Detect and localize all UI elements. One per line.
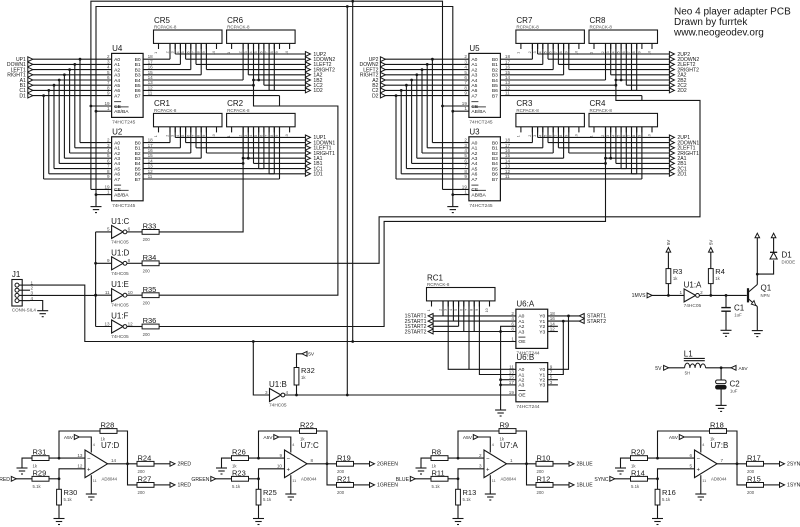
svg-text:AD8044: AD8044 [711, 477, 727, 482]
wire U4 B0 row [143, 58, 170, 60]
wire down to R21 [327, 464, 337, 485]
wire output 2D2 row [632, 89, 670, 91]
wire DOWN1 staircase vertical [74, 64, 76, 147]
wire U1:F output to R36 [127, 326, 142, 328]
wire RC1 pin8 riser to 2START2 row [473, 301, 475, 332]
wire U1:C input [96, 231, 112, 233]
ground R25 [253, 518, 264, 520]
svg-text:B1: B1 [492, 62, 498, 68]
resistor R28 1k [100, 429, 117, 434]
svg-text:A4: A4 [114, 78, 120, 84]
output terminal 2UP1 [669, 135, 674, 140]
wire R3 bottom [667, 284, 669, 296]
svg-text:B3: B3 [135, 73, 141, 79]
svg-text:R29: R29 [33, 468, 47, 477]
resistor pack CR6 RCPACK-8 [227, 30, 296, 43]
wire AB/BA net vertical [452, 111, 454, 206]
wire U7:C output [307, 463, 337, 465]
wire control TR: to R34 [159, 80, 700, 263]
svg-text:7: 7 [627, 135, 631, 137]
wire RC1 pin9 riser to U6:B A1 [479, 301, 516, 375]
svg-text:12: 12 [128, 321, 134, 326]
wire feedback to R28 [59, 431, 100, 458]
wire U4 B2 row [143, 69, 191, 71]
ground R30 [54, 518, 65, 520]
resistor R4 1k [708, 269, 713, 284]
wire input D1 row [32, 95, 111, 97]
svg-text:5: 5 [107, 227, 110, 232]
wire 5V to L1 [668, 367, 684, 369]
svg-text:3: 3 [171, 51, 175, 53]
svg-text:10: 10 [277, 464, 283, 469]
svg-text:5V: 5V [308, 352, 315, 358]
svg-text:CR4: CR4 [590, 99, 607, 108]
svg-text:OE: OE [518, 393, 526, 399]
svg-text:R33: R33 [143, 222, 157, 231]
svg-text:B2: B2 [135, 67, 141, 73]
wire input DOWN1 row [32, 63, 111, 65]
svg-text:3: 3 [533, 51, 537, 53]
wire R4 top to 5V [710, 252, 712, 269]
op-amp U7:D AD8044 [85, 450, 108, 478]
svg-text:SYNC: SYNC [594, 477, 608, 483]
wire AB/BA net vertical [95, 111, 97, 206]
svg-text:B5: B5 [135, 83, 141, 89]
wire Q1 emitter to ground [756, 307, 758, 331]
svg-text:200: 200 [747, 469, 755, 474]
wire CE net vertical [90, 106, 92, 189]
svg-text:1SYNC: 1SYNC [787, 483, 800, 489]
transistor Q1 NPN [747, 288, 749, 302]
wire output 1C1 row [259, 168, 306, 170]
svg-text:1D1: 1D1 [313, 172, 323, 178]
wire R25 to ground [258, 505, 260, 519]
svg-text:1: 1 [516, 52, 520, 54]
svg-text:5.1k: 5.1k [33, 484, 42, 489]
svg-text:8: 8 [511, 327, 514, 332]
wire U2 B1 row [143, 147, 180, 149]
svg-text:4: 4 [93, 443, 95, 447]
svg-text:6: 6 [689, 453, 692, 458]
svg-text:74HCT245: 74HCT245 [469, 119, 493, 125]
wire RIGHT1 staircase vertical [63, 75, 65, 158]
svg-text:9: 9 [202, 51, 206, 53]
wire U4 B1 row [143, 63, 180, 65]
wire input A2 row [385, 79, 468, 81]
svg-text:10: 10 [128, 290, 134, 295]
power 5V terminal R4 [709, 248, 714, 253]
svg-text:13: 13 [104, 321, 110, 326]
svg-text:J1: J1 [12, 270, 21, 279]
svg-text:4: 4 [611, 135, 615, 137]
svg-text:Q1: Q1 [761, 284, 772, 293]
wire J1 pin4 to ground [30, 301, 43, 311]
svg-text:DIODE: DIODE [782, 260, 796, 265]
svg-text:B7: B7 [492, 177, 498, 183]
svg-text:A1: A1 [114, 62, 120, 68]
output terminal 1LEFT1 [305, 145, 310, 150]
svg-text:8: 8 [311, 458, 314, 463]
output terminal 1D2 [305, 88, 310, 93]
svg-text:4: 4 [702, 443, 704, 447]
svg-text:A5V: A5V [669, 435, 679, 441]
wire U6:A Y0/Y1 outputs to START1/START2 [548, 315, 580, 317]
svg-text:5V: 5V [708, 240, 713, 245]
svg-text:R11: R11 [432, 468, 445, 477]
svg-text:CR8: CR8 [590, 16, 607, 25]
wire U1:D output to R34 [127, 262, 142, 264]
svg-text:A1: A1 [518, 372, 524, 378]
wire output 2B1 row [616, 162, 670, 164]
svg-text:A3: A3 [114, 73, 120, 79]
resistor R25 5.1k (shunt) [258, 479, 260, 490]
output terminal 2DOWN2 [669, 57, 674, 62]
svg-text:5: 5 [544, 51, 548, 53]
power 5V terminal D1 [771, 233, 776, 238]
output terminal 1A2 [305, 72, 310, 77]
svg-text:200: 200 [537, 469, 545, 474]
svg-text:−: − [87, 456, 91, 462]
resistor R24 200 [137, 461, 154, 466]
wire U6:B A3 row [501, 384, 516, 386]
wire RC1 pin7 riser to U6:B A0 row [468, 301, 470, 369]
output terminal 1RED [170, 483, 175, 488]
wire U2 B3 row [143, 157, 201, 159]
output terminal 1LEFT2 [305, 62, 310, 67]
svg-text:Y3: Y3 [539, 383, 545, 389]
svg-text:3: 3 [533, 135, 537, 137]
svg-text:1uF: 1uF [730, 389, 738, 394]
svg-text:B4: B4 [135, 161, 141, 167]
svg-text:6: 6 [128, 227, 131, 232]
svg-text:B2: B2 [135, 151, 141, 157]
svg-text:U6:A: U6:A [516, 300, 534, 309]
svg-text:200: 200 [337, 490, 345, 495]
wire output 1B1 row [254, 162, 306, 164]
resistor R15 200 [747, 483, 764, 488]
wire input C1 row [32, 89, 111, 91]
wire D2 staircase vertical [395, 96, 397, 179]
svg-text:8: 8 [559, 135, 563, 137]
ground C2 [716, 404, 727, 406]
svg-text:7: 7 [192, 135, 196, 137]
output terminal 2A2 [669, 72, 674, 77]
wire R22 right to output [317, 431, 328, 464]
svg-text:R4: R4 [715, 267, 725, 276]
svg-text:A0: A0 [518, 314, 524, 320]
wire to 2BLUE [553, 463, 569, 465]
svg-text:2: 2 [601, 135, 605, 137]
svg-text:U2: U2 [112, 127, 123, 136]
svg-text:R13: R13 [463, 488, 477, 497]
svg-text:R15: R15 [747, 475, 761, 484]
svg-text:8: 8 [632, 135, 636, 137]
svg-text:8: 8 [128, 258, 131, 263]
74HCT245 U2 [112, 137, 144, 201]
svg-text:R32: R32 [301, 366, 315, 375]
wire DIR rail (inner, top) [96, 7, 453, 112]
svg-text:8: 8 [632, 51, 636, 53]
wire U2 B4 row [143, 162, 243, 164]
wire U7:A V- to ground [489, 475, 491, 494]
resistor R26 1k [232, 456, 249, 461]
resistor R30 5.1k (shunt) [58, 479, 60, 490]
svg-text:200: 200 [537, 490, 545, 495]
74HCT245 U4 [112, 53, 144, 117]
output terminal 2C2 [669, 83, 674, 88]
svg-text:A7: A7 [114, 177, 120, 183]
ground U6:B [495, 409, 506, 411]
wire U7:C V- to ground [290, 475, 292, 494]
svg-text:9: 9 [564, 51, 568, 53]
svg-text:9: 9 [107, 174, 110, 179]
capacitor C2 1uF [720, 368, 722, 380]
svg-text:Y1: Y1 [539, 372, 545, 378]
wire B1 staircase vertical [53, 85, 55, 168]
svg-text:D1: D1 [19, 93, 26, 99]
inverter U1:F 74HC05 [112, 320, 124, 333]
wire U2 B6 row [143, 173, 274, 175]
svg-text:+: + [87, 467, 91, 473]
svg-text:A0: A0 [471, 140, 477, 146]
wire U6 input tie vertical [501, 326, 516, 385]
wire down to R12 [527, 464, 537, 485]
svg-text:A0: A0 [114, 140, 120, 146]
svg-text:1GREEN: 1GREEN [377, 483, 398, 489]
svg-text:U7:A: U7:A [500, 441, 518, 450]
ground Q1 [752, 330, 763, 332]
svg-text:B2: B2 [492, 67, 498, 73]
svg-text:U1:E: U1:E [111, 280, 129, 289]
svg-text:L1: L1 [684, 349, 693, 358]
wire U1:D input [96, 262, 112, 264]
svg-text:U7:D: U7:D [101, 441, 119, 450]
svg-text:9: 9 [107, 91, 110, 96]
svg-text:8: 8 [270, 51, 274, 53]
wire minus input row [249, 457, 285, 459]
svg-text:200: 200 [143, 269, 151, 274]
wire U3 B4 row [500, 162, 605, 164]
svg-text:NPN: NPN [761, 293, 770, 298]
svg-text:6: 6 [622, 51, 626, 53]
output terminal 1B1 [305, 161, 310, 166]
svg-text:5V: 5V [666, 240, 671, 245]
wire U3 B5 row [500, 168, 626, 170]
wire input UP1 row [32, 58, 111, 60]
power A5V terminal [731, 365, 736, 370]
svg-text:9: 9 [475, 309, 479, 311]
wire to 2SYNC [764, 463, 780, 465]
svg-text:2: 2 [700, 290, 703, 295]
svg-text:7: 7 [721, 458, 724, 463]
wire R16 to ground [657, 505, 659, 519]
resistor R8 1k [431, 456, 448, 461]
output terminal 1RIGHT1 [305, 151, 310, 156]
svg-text:7: 7 [465, 309, 469, 311]
svg-text:A2: A2 [471, 151, 477, 157]
svg-text:GREEN: GREEN [191, 477, 209, 483]
svg-text:5.1k: 5.1k [463, 497, 472, 502]
wire control TL: B7 tap to R35 [159, 80, 338, 295]
svg-text:A6: A6 [471, 172, 477, 178]
svg-text:U7:C: U7:C [301, 441, 319, 450]
resistor R11 5.1k [431, 476, 448, 481]
wire output 2D1 row [632, 173, 670, 175]
svg-text:4: 4 [492, 443, 494, 447]
wire RC1 pin3 riser to U6:B A0 [448, 301, 516, 369]
resistor R36 200 [142, 324, 159, 329]
wire U7:A output [507, 463, 537, 465]
wire R32 bottom [296, 385, 298, 395]
svg-text:2: 2 [439, 309, 443, 311]
svg-text:13: 13 [77, 453, 83, 458]
svg-text:4: 4 [449, 309, 453, 311]
svg-text:B7: B7 [492, 93, 498, 99]
wire R31 left to ground [22, 458, 32, 468]
output terminal 1RIGHT2 [305, 67, 310, 72]
svg-text:2: 2 [528, 51, 532, 53]
output terminal 2C1 [669, 166, 674, 171]
wire U5 B7 drop to rail [641, 96, 643, 101]
svg-text:7: 7 [554, 135, 558, 137]
svg-text:A5V: A5V [739, 366, 749, 372]
svg-text:A2: A2 [114, 67, 120, 73]
svg-text:CR6: CR6 [227, 16, 244, 25]
wire output 2DOWN1 row [547, 127, 549, 143]
wire U7:B output [717, 463, 747, 465]
resistor pack CR5 RCPACK-8 [154, 30, 223, 43]
wire U1:F input [96, 326, 112, 328]
svg-text:1D2: 1D2 [313, 88, 323, 94]
svg-text:CR3: CR3 [516, 99, 533, 108]
svg-text:11: 11 [702, 479, 706, 483]
wire GREEN to R23 [215, 478, 231, 480]
svg-text:−: − [697, 456, 701, 462]
svg-text:A3: A3 [471, 156, 477, 162]
svg-text:D1: D1 [782, 251, 793, 260]
resistor R29 5.1k [32, 476, 49, 481]
ground R31 [17, 467, 28, 469]
svg-text:C1: C1 [734, 304, 745, 313]
output terminal 2B2 [669, 78, 674, 83]
svg-text:−: − [287, 456, 291, 462]
svg-text:B3: B3 [492, 73, 498, 79]
inverter U1:C 74HC05 [112, 225, 124, 238]
resistor R23 5.1k [232, 476, 249, 481]
svg-text:12: 12 [77, 464, 83, 469]
svg-text:R30: R30 [64, 488, 78, 497]
svg-text:1: 1 [464, 190, 467, 195]
inverter U1:E 74HC05 [112, 289, 124, 302]
svg-text:7: 7 [554, 51, 558, 53]
wire U2 B5 row [143, 168, 264, 170]
svg-text:2GREEN: 2GREEN [377, 462, 398, 468]
svg-text:5.1k: 5.1k [662, 497, 671, 502]
svg-text:1BLUE: 1BLUE [577, 483, 594, 489]
svg-text:5: 5 [181, 51, 185, 53]
output terminal 2LEFT2 [669, 62, 674, 67]
wire control BR: to R36 [159, 127, 605, 327]
wire SYNC to R14 [614, 478, 630, 480]
svg-text:Y2: Y2 [539, 378, 545, 384]
wire U4 B3 row [143, 74, 201, 76]
wire L1 to A5V [706, 367, 731, 369]
svg-text:+: + [486, 467, 490, 473]
svg-text:A4: A4 [471, 161, 477, 167]
svg-text:A5: A5 [114, 166, 120, 172]
resistor R13 5.1k (shunt) [457, 479, 459, 490]
svg-text:11: 11 [505, 91, 510, 96]
svg-text:B4: B4 [492, 78, 498, 84]
wire D1 staircase vertical [43, 96, 45, 179]
wire output 2LEFT1 row [557, 127, 559, 148]
output terminal 2RED [170, 461, 175, 466]
svg-text:2: 2 [239, 51, 243, 53]
svg-text:5: 5 [254, 135, 258, 137]
wire output 1A2 row [248, 74, 305, 76]
resistor R34 200 [142, 261, 159, 266]
ground R13 [453, 518, 464, 520]
svg-text:11: 11 [93, 479, 97, 483]
resistor R16 5.1k (shunt) [657, 479, 659, 490]
connector J1 CONN-SIL4 [12, 280, 22, 307]
wire U5 B1 row [500, 63, 542, 65]
svg-text:A1: A1 [518, 319, 524, 325]
stub U6:B Y2/Y3 [548, 379, 558, 381]
svg-text:6: 6 [622, 135, 626, 137]
svg-text:RCPACK-8: RCPACK-8 [590, 25, 613, 30]
svg-text:200: 200 [143, 332, 151, 337]
svg-text:R18: R18 [710, 421, 724, 430]
wire control tap vertical U3 [605, 127, 607, 164]
svg-text:OE: OE [518, 339, 526, 345]
svg-text:2SYNC: 2SYNC [787, 462, 800, 468]
ground below U2 [91, 206, 102, 208]
op-amp U7:A AD8044 [484, 450, 507, 478]
ground R26 [216, 467, 227, 469]
wire UP1 staircase vertical [79, 59, 81, 142]
svg-text:R25: R25 [263, 488, 277, 497]
svg-text:R35: R35 [143, 285, 157, 294]
svg-text:200: 200 [143, 301, 151, 306]
svg-text:A5V: A5V [463, 435, 473, 441]
wire down to R15 [737, 464, 747, 485]
svg-text:9: 9 [202, 135, 206, 137]
svg-text:R21: R21 [337, 475, 351, 484]
svg-text:9: 9 [564, 135, 568, 137]
svg-text:200: 200 [747, 490, 755, 495]
svg-text:U7:B: U7:B [711, 441, 729, 450]
svg-text:A3: A3 [518, 329, 524, 335]
wire R9 right to output [516, 431, 527, 464]
svg-text:U1:D: U1:D [111, 248, 129, 257]
svg-text:A5V: A5V [263, 435, 273, 441]
wire U3 B7 row [500, 178, 642, 180]
svg-text:U1:F: U1:F [111, 312, 128, 321]
svg-text:1: 1 [154, 52, 158, 54]
wire U1 input bus vertical [95, 232, 97, 327]
svg-text:11: 11 [105, 290, 110, 295]
resistor R10 200 [536, 461, 553, 466]
wire feedback to R18 [658, 431, 710, 458]
wire output 2UP2 row [537, 43, 539, 54]
svg-text:8: 8 [470, 309, 474, 311]
wire U3 B0 row [500, 142, 532, 144]
svg-text:4: 4 [611, 51, 615, 53]
output terminal 2A1 [669, 156, 674, 161]
svg-text:A2: A2 [114, 151, 120, 157]
svg-text:A5: A5 [471, 83, 477, 89]
